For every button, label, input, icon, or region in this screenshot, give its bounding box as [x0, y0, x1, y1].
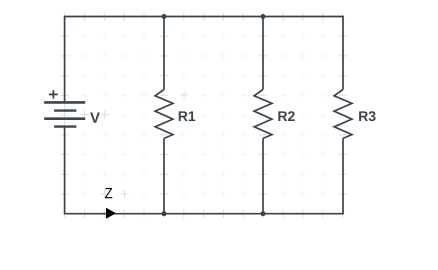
wire R2 branch upper — [262, 17, 264, 90]
wire top bus — [65, 16, 343, 18]
wire bottom bus — [65, 213, 343, 215]
wire left branch upper (top bus to battery + plate) — [64, 16, 66, 103]
wire R1 branch lower — [163, 138, 165, 213]
label R1 — [179, 111, 196, 121]
label V — [90, 112, 100, 122]
current direction arrow — [106, 208, 116, 219]
wire R1 branch upper — [163, 17, 165, 90]
label R2 — [278, 111, 294, 121]
junction node bottom R2 — [261, 211, 266, 216]
junction node top R2 — [261, 14, 266, 19]
wire R3 branch lower (right edge) — [342, 138, 344, 214]
wire left branch lower (battery - plate to bottom bus) — [64, 127, 66, 215]
wire R3 branch upper (right edge) — [342, 16, 344, 90]
resistor R1 — [155, 90, 173, 139]
wire R2 branch lower — [262, 138, 264, 213]
resistor R3 — [334, 90, 352, 139]
label Z — [105, 188, 112, 198]
resistor R2 — [254, 90, 272, 139]
junction node top R1 — [162, 14, 167, 19]
junction node bottom R1 — [162, 211, 167, 216]
label R3 — [359, 111, 375, 121]
battery V — [44, 102, 85, 126]
battery polarity plus sign — [49, 90, 58, 98]
